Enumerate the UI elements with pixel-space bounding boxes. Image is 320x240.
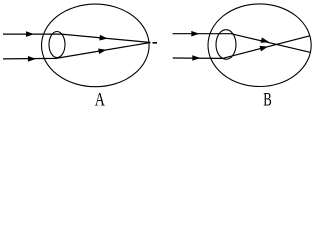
arrowhead B top incident [191,31,199,37]
eyeball B outline [208,4,311,87]
incident ray B top (wire) [173,34,311,53]
arrowhead A bottom refracted [98,47,107,54]
arrowhead A bottom incident [28,56,36,62]
arrowhead B top refracted [261,37,270,44]
svg-text:B: B [263,90,272,110]
eyeball A outline [42,4,150,87]
crystalline lens A [49,32,65,58]
arrowhead A top refracted [99,35,107,41]
incident ray B bottom (wire) [173,36,310,59]
incident ray A bottom (wire) [3,43,151,59]
crystalline lens B [216,30,236,60]
arrowhead A top incident [26,31,34,37]
arrowhead B bottom refracted [260,44,269,51]
incident ray A top (wire) [3,34,151,42]
focus dash behind retina A [153,42,158,44]
svg-text:A: A [95,90,105,110]
arrowhead B bottom incident [192,55,200,61]
